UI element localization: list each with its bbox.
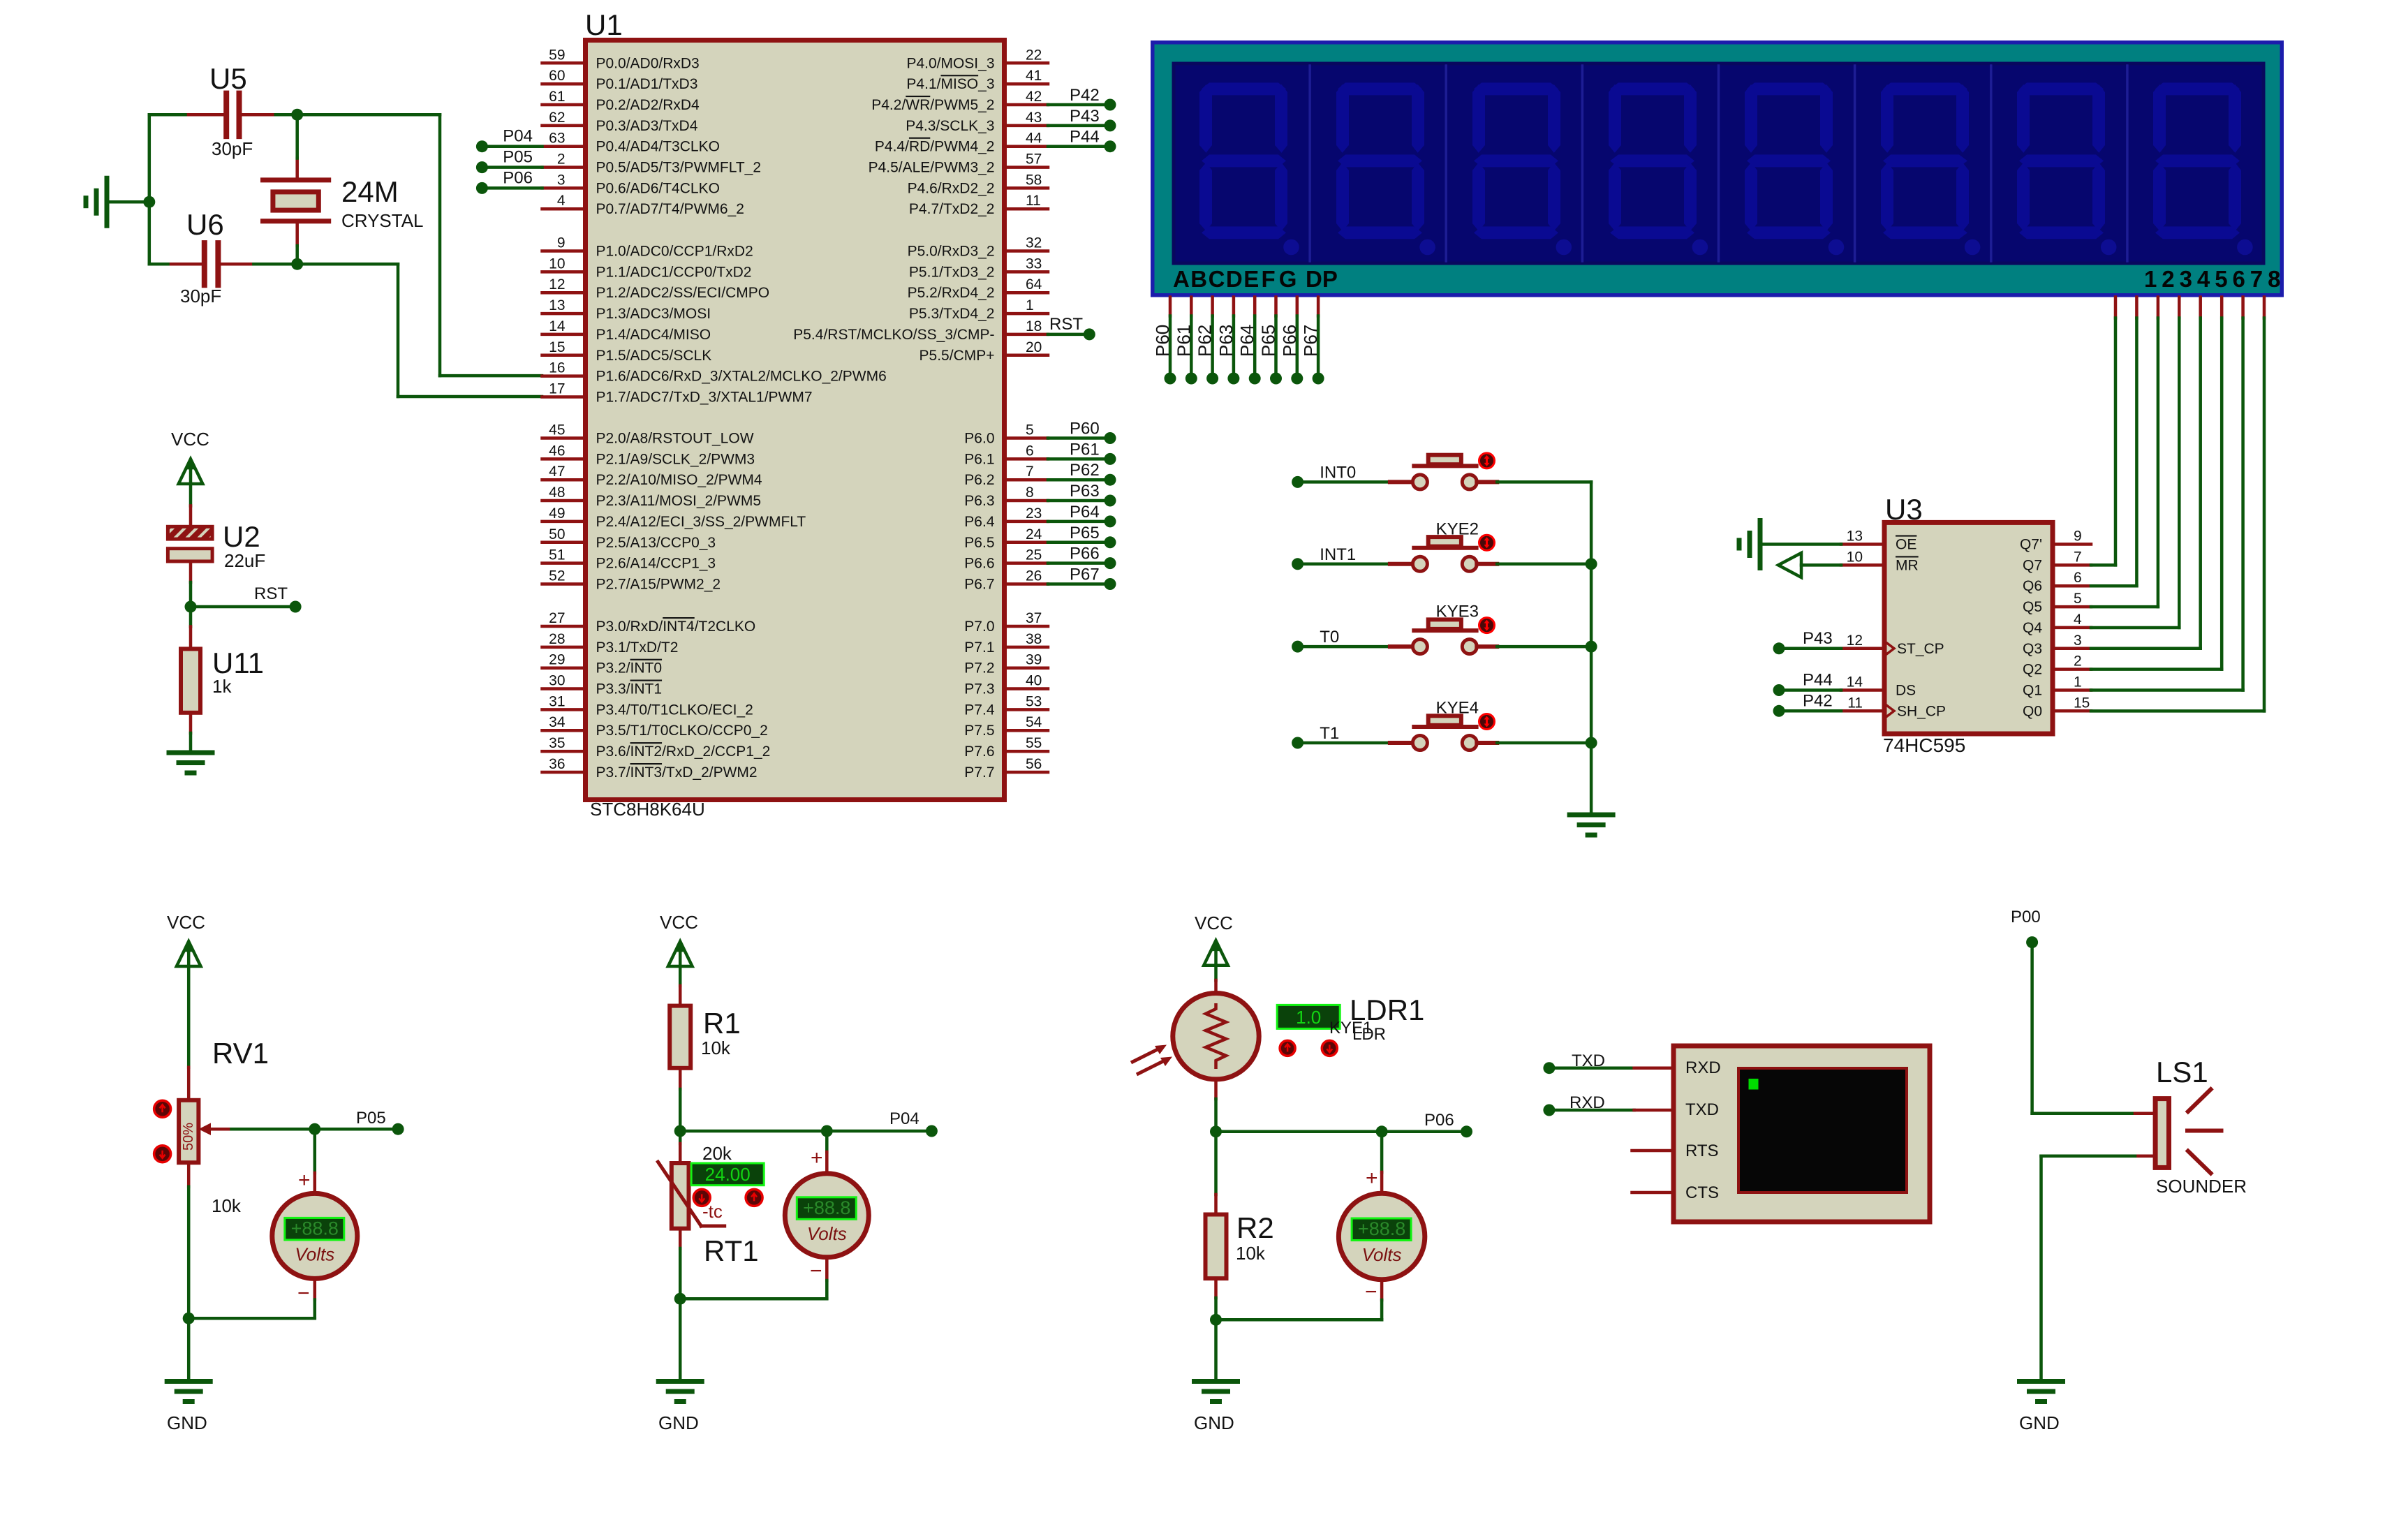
- terminal T0: [1292, 628, 1339, 653]
- svg-text:INT0: INT0: [1320, 463, 1356, 482]
- svg-text:R2: R2: [1236, 1211, 1274, 1244]
- svg-text:42: 42: [1026, 89, 1042, 105]
- svg-text:C: C: [1209, 266, 1225, 292]
- value display 24.00 (RT1): [691, 1163, 764, 1185]
- U1 left pin group P1 (pins 9,10,12,13,14,15,16,17): [542, 235, 887, 406]
- svg-text:P0.5/AD5/T3/PWMFLT_2: P0.5/AD5/T3/PWMFLT_2: [596, 160, 762, 176]
- LDR LDR1: [1131, 994, 1424, 1079]
- wire U3 Q3 to display vertical: [2091, 647, 2201, 651]
- terminal P00: [2011, 908, 2041, 948]
- display digit cell 8 (ghost 8 and decimal point): [2127, 66, 2253, 261]
- svg-text:P67: P67: [1300, 325, 1321, 357]
- svg-text:56: 56: [1026, 756, 1042, 772]
- svg-text:MR: MR: [1896, 557, 1919, 573]
- svg-text:46: 46: [549, 443, 565, 459]
- svg-text:8: 8: [2268, 266, 2280, 292]
- display digit cell 6 (ghost 8 and decimal point): [1855, 66, 1981, 261]
- svg-text:24M: 24M: [341, 175, 399, 208]
- svg-text:−: −: [1365, 1280, 1377, 1303]
- svg-text:P3.4/T0/T1CLKO/ECI_2: P3.4/T0/T1CLKO/ECI_2: [596, 702, 753, 718]
- U3 left pins (13 OE, 10 MR, 12 ST_CP, 14 DS, 11 SH_CP): [1841, 529, 1946, 720]
- svg-text:P7.0: P7.0: [964, 619, 994, 635]
- svg-text:57: 57: [1026, 152, 1042, 168]
- svg-text:SH_CP: SH_CP: [1897, 703, 1946, 719]
- svg-text:GND: GND: [658, 1412, 699, 1433]
- U1 right pin group P4 (pins 22,41,42,43,44,57,58,11): [869, 47, 1048, 217]
- svg-text:14: 14: [1847, 674, 1863, 690]
- wire P42 to U3: [1785, 709, 1841, 713]
- svg-text:6: 6: [2074, 570, 2082, 586]
- U1 right pin group P6 (pins 5,6,7,8,23,24,25,26): [964, 422, 1048, 593]
- svg-text:P4.7/TxD2_2: P4.7/TxD2_2: [909, 201, 995, 217]
- wire P64 from U1: [1048, 520, 1110, 524]
- push button KYE3 (T0): [1303, 603, 1591, 654]
- svg-text:P4.1/MISO_3: P4.1/MISO_3: [906, 76, 994, 92]
- svg-text:59: 59: [549, 47, 565, 63]
- terminal P06 (LDR): [1424, 1111, 1472, 1137]
- node ground junction: [143, 196, 155, 208]
- terminal P62 (display): [1195, 325, 1219, 385]
- svg-text:Q6: Q6: [2023, 578, 2042, 594]
- svg-text:Q7: Q7: [2023, 557, 2042, 573]
- svg-text:1: 1: [2144, 266, 2157, 292]
- U1 right pin group P5 (pins 32,33,64,1,18,20): [793, 235, 1048, 364]
- svg-text:5: 5: [2215, 266, 2227, 292]
- svg-text:18: 18: [1026, 318, 1042, 334]
- wire P43 from U1: [1048, 124, 1110, 128]
- svg-text:28: 28: [549, 631, 565, 647]
- wire P44 to U3: [1785, 688, 1841, 692]
- terminal P64: [1070, 503, 1116, 528]
- label KYE1 (overlapping): [1329, 1019, 1372, 1037]
- wire R1 to P04 node: [679, 1089, 682, 1131]
- wire U3 Q0 to display vertical: [2091, 709, 2264, 713]
- terminal P42 (U3): [1773, 691, 1833, 717]
- svg-text:P6.3: P6.3: [964, 493, 994, 509]
- wire ground to node: [107, 200, 149, 204]
- wire P63 from U1: [1048, 499, 1110, 503]
- svg-text:53: 53: [1026, 693, 1042, 709]
- svg-text:27: 27: [549, 610, 565, 626]
- svg-text:Q2: Q2: [2023, 662, 2042, 678]
- svg-text:43: 43: [1026, 110, 1042, 126]
- wire P61 from U1: [1048, 457, 1110, 461]
- terminal P04 (R1/RT1): [889, 1109, 938, 1137]
- svg-text:50%: 50%: [181, 1123, 196, 1151]
- svg-text:RT1: RT1: [704, 1234, 759, 1267]
- svg-text:1: 1: [1026, 297, 1034, 313]
- wire display digit pin 3 to U3 Q5: [2157, 297, 2160, 607]
- ground (U3 OE): [1739, 521, 1760, 568]
- svg-text:39: 39: [1026, 652, 1042, 668]
- terminal P05: [476, 148, 533, 174]
- wire display digit pin 4 to U3 Q4: [2178, 297, 2181, 628]
- wire display digit pin 2 to U3 Q6: [2135, 297, 2139, 586]
- wire U3 Q5 to display vertical: [2091, 605, 2158, 609]
- svg-text:U1: U1: [585, 8, 623, 41]
- terminal P44 (U3): [1773, 671, 1833, 697]
- svg-text:KYE3: KYE3: [1436, 603, 1479, 621]
- svg-text:VCC: VCC: [1195, 913, 1233, 933]
- svg-text:P0.4/AD4/T3CLKO: P0.4/AD4/T3CLKO: [596, 139, 720, 155]
- svg-text:P4.4/RD/PWM4_2: P4.4/RD/PWM4_2: [875, 139, 995, 155]
- wire P06 row: [1216, 1130, 1467, 1134]
- svg-text:7: 7: [1026, 464, 1034, 480]
- power VCC terminal (reset circuit): [171, 429, 209, 506]
- wire voltmeter + (RT1): [825, 1131, 829, 1174]
- ground GND (RV1): [167, 1382, 210, 1434]
- svg-text:P5.1/TxD3_2: P5.1/TxD3_2: [909, 264, 995, 280]
- node bottom rail junction (RT1): [674, 1293, 686, 1305]
- svg-text:3: 3: [2074, 633, 2082, 649]
- display segment pin 2 wire to terminal P61: [1190, 297, 1193, 373]
- svg-text:8: 8: [1026, 485, 1034, 501]
- svg-text:P6.4: P6.4: [964, 514, 995, 530]
- svg-text:P65: P65: [1070, 524, 1100, 542]
- wire P62 from U1: [1048, 478, 1110, 482]
- svg-text:P0.7/AD7/T4/PWM6_2: P0.7/AD7/T4/PWM6_2: [596, 201, 744, 217]
- node button bus junction: [1586, 558, 1597, 570]
- node button bus junction: [1586, 737, 1597, 749]
- U1 left pin group P0 (pins 59,60,61,62,63,2,3,4): [542, 47, 762, 217]
- svg-text:R1: R1: [703, 1007, 741, 1040]
- power VCC terminal (LDR): [1195, 913, 1233, 966]
- resistor R1 10k: [670, 986, 741, 1089]
- svg-text:RXD: RXD: [1685, 1058, 1721, 1077]
- svg-text:P5.2/RxD4_2: P5.2/RxD4_2: [908, 285, 995, 301]
- display segment pin 3 wire to terminal P62: [1211, 297, 1214, 373]
- terminal TXD: [1543, 1051, 1605, 1074]
- svg-text:P60: P60: [1070, 420, 1100, 438]
- voltmeter (RT1): [785, 1146, 869, 1283]
- wire P42 from U1: [1048, 103, 1110, 107]
- ground (reset circuit): [169, 753, 212, 773]
- adjust buttons (LDR1): [1280, 1040, 1337, 1056]
- svg-text:32: 32: [1026, 235, 1042, 251]
- svg-text:P63: P63: [1216, 325, 1236, 357]
- node voltmeter + junction (RT1): [821, 1125, 833, 1137]
- terminal P63 (display): [1216, 325, 1240, 385]
- svg-text:9: 9: [557, 235, 566, 251]
- ground GND (LDR): [1194, 1382, 1238, 1434]
- svg-text:7: 7: [2250, 266, 2263, 292]
- svg-text:P6.6: P6.6: [964, 556, 994, 572]
- wire voltmeter - to bottom rail: [189, 1278, 315, 1318]
- display segment pin 6 wire to terminal P65: [1274, 297, 1278, 373]
- svg-text:GND: GND: [2019, 1412, 2060, 1433]
- terminal RST: [254, 584, 302, 613]
- value display 1.0 (LDR1): [1277, 1005, 1340, 1028]
- wire junction to voltmeter +: [313, 1129, 317, 1193]
- svg-text:DP: DP: [1306, 266, 1338, 292]
- svg-text:LS1: LS1: [2156, 1056, 2208, 1088]
- display segment pin 7 wire to terminal P66: [1296, 297, 1299, 373]
- svg-text:11: 11: [1847, 695, 1863, 711]
- svg-text:D: D: [1226, 266, 1243, 292]
- svg-text:−: −: [810, 1260, 822, 1283]
- svg-text:P66: P66: [1279, 325, 1300, 357]
- wire U3 Q7 to display vertical: [2091, 563, 2115, 567]
- svg-text:ST_CP: ST_CP: [1897, 641, 1944, 657]
- svg-text:2: 2: [557, 152, 566, 168]
- display segment pin 4 wire to terminal P63: [1232, 297, 1236, 373]
- svg-text:10k: 10k: [1236, 1243, 1266, 1264]
- terminal P60 (display): [1152, 325, 1176, 385]
- svg-text:+: +: [811, 1146, 823, 1169]
- svg-text:P61: P61: [1070, 440, 1100, 459]
- svg-text:P06: P06: [1424, 1111, 1454, 1130]
- wire bottom to ground (RT1): [679, 1299, 682, 1381]
- svg-text:6: 6: [1026, 443, 1034, 459]
- svg-text:47: 47: [549, 464, 565, 480]
- svg-text:VCC: VCC: [167, 912, 205, 933]
- svg-text:U5: U5: [209, 62, 247, 95]
- svg-text:P42: P42: [1070, 86, 1100, 105]
- svg-text:P2.2/A10/MISO_2/PWM4: P2.2/A10/MISO_2/PWM4: [596, 472, 762, 488]
- ground GND (RT1): [658, 1382, 702, 1434]
- svg-text:Volts: Volts: [1362, 1244, 1402, 1265]
- svg-text:P2.4/A12/ECI_3/SS_2/PWMFLT: P2.4/A12/ECI_3/SS_2/PWMFLT: [596, 514, 806, 530]
- svg-text:61: 61: [549, 89, 565, 105]
- node crystal top: [291, 109, 303, 121]
- svg-text:P2.5/A13/CCP0_3: P2.5/A13/CCP0_3: [596, 535, 716, 551]
- capacitor U5 30pF: [209, 62, 253, 159]
- wire button common bus: [1590, 482, 1593, 815]
- svg-text:P6.5: P6.5: [964, 535, 994, 551]
- svg-text:P62: P62: [1195, 325, 1216, 357]
- wire display digit pin 5 to U3 Q3: [2199, 297, 2202, 649]
- svg-text:30pF: 30pF: [180, 286, 221, 306]
- svg-text:P4.6/RxD2_2: P4.6/RxD2_2: [908, 180, 995, 196]
- U3 right pins (9 Q7', 7 Q7, 6 Q6, 5 Q5, 4 Q4, 3 Q3, 2 Q2, 1 Q1, 15 Q0): [2020, 529, 2091, 720]
- svg-text:1: 1: [2074, 674, 2082, 690]
- display digit cell 2 (ghost 8 and decimal point): [1310, 66, 1435, 261]
- terminal RTS stub: [1632, 1149, 1674, 1153]
- terminal T1: [1292, 724, 1339, 749]
- terminal P67: [1070, 566, 1116, 591]
- display digit cell 1 (ghost 8 and decimal point): [1199, 82, 1299, 255]
- svg-text:P05: P05: [503, 148, 533, 167]
- svg-text:P7.5: P7.5: [964, 723, 994, 739]
- wire U11 to ground: [189, 733, 193, 753]
- svg-text:60: 60: [549, 68, 565, 84]
- svg-text:KYE4: KYE4: [1436, 699, 1479, 718]
- svg-text:63: 63: [549, 131, 565, 147]
- svg-text:P3.1/TxD/T2: P3.1/TxD/T2: [596, 640, 679, 656]
- svg-text:T0: T0: [1320, 628, 1339, 647]
- svg-text:OE: OE: [1896, 537, 1916, 553]
- node button bus junction: [1586, 641, 1597, 653]
- svg-text:P7.2: P7.2: [964, 660, 994, 677]
- display segment pin 8 wire to terminal P67: [1317, 297, 1320, 373]
- svg-text:+: +: [1366, 1167, 1378, 1190]
- svg-text:49: 49: [549, 505, 565, 522]
- svg-text:64: 64: [1026, 276, 1042, 293]
- svg-text:2: 2: [2074, 653, 2082, 670]
- svg-text:1.0: 1.0: [1296, 1007, 1321, 1028]
- svg-text:17: 17: [549, 381, 565, 397]
- wire XTAL1 net to U1 pin17: [297, 264, 542, 397]
- terminal P43 (U3): [1773, 629, 1833, 655]
- svg-text:P43: P43: [1803, 629, 1833, 648]
- svg-text:12: 12: [549, 276, 565, 293]
- svg-text:P2.7/A15/PWM2_2: P2.7/A15/PWM2_2: [596, 577, 721, 593]
- svg-text:P1.4/ADC4/MISO: P1.4/ADC4/MISO: [596, 327, 711, 343]
- svg-text:U3: U3: [1885, 493, 1923, 526]
- svg-text:30: 30: [549, 673, 565, 689]
- display digit cell 4 (ghost 8 and decimal point): [1582, 66, 1708, 261]
- svg-text:4: 4: [2074, 612, 2082, 628]
- node crystal bottom: [291, 258, 303, 270]
- IC U3 74HC595 body: [1883, 493, 2053, 756]
- svg-text:31: 31: [549, 693, 565, 709]
- voltmeter (RV1): [272, 1169, 357, 1305]
- svg-text:GND: GND: [167, 1412, 207, 1433]
- svg-text:10: 10: [549, 256, 565, 272]
- svg-text:24.00: 24.00: [705, 1164, 751, 1185]
- wire RV1 bottom to ground: [187, 1187, 191, 1382]
- U1 left pin group P3 (pins 27,28,29,30,31,34,35,36): [542, 610, 771, 781]
- svg-text:B: B: [1190, 266, 1207, 292]
- node RT1 top junction: [674, 1125, 686, 1137]
- adjust buttons (RT1): [693, 1189, 762, 1206]
- svg-text:30pF: 30pF: [212, 138, 253, 159]
- svg-text:DS: DS: [1896, 683, 1916, 699]
- wire sounder to ground: [2041, 1156, 2156, 1382]
- terminal P60: [1070, 420, 1116, 445]
- svg-text:P6.2: P6.2: [964, 472, 994, 488]
- svg-text:4: 4: [2197, 266, 2210, 292]
- thermistor RT1 (NTC): [658, 1131, 758, 1267]
- wire U3 Q1 to display vertical: [2091, 688, 2243, 692]
- svg-text:P0.1/AD1/TxD3: P0.1/AD1/TxD3: [596, 76, 698, 92]
- ground (buttons): [1569, 815, 1613, 835]
- svg-text:P5.3/TxD4_2: P5.3/TxD4_2: [909, 306, 995, 322]
- terminal P61: [1070, 440, 1116, 465]
- display segment pin 1 wire to terminal P60: [1169, 297, 1172, 373]
- svg-text:74HC595: 74HC595: [1883, 734, 1965, 756]
- svg-text:P67: P67: [1070, 566, 1100, 584]
- svg-text:33: 33: [1026, 256, 1042, 272]
- svg-text:VCC: VCC: [660, 912, 698, 933]
- svg-text:4: 4: [557, 193, 566, 209]
- terminal RXD: [1543, 1093, 1604, 1116]
- svg-text:52: 52: [549, 568, 565, 584]
- svg-text:KYE2: KYE2: [1436, 519, 1479, 538]
- svg-text:P1.3/ADC3/MOSI: P1.3/ADC3/MOSI: [596, 306, 711, 322]
- terminal P66 (display): [1279, 325, 1303, 385]
- svg-text:STC8H8K64U: STC8H8K64U: [590, 799, 705, 820]
- capacitor U2 22uF (electrolytic): [168, 506, 265, 583]
- push button KYE1 (INT0): [1303, 453, 1591, 489]
- node R2 top junction: [1210, 1125, 1222, 1137]
- svg-text:37: 37: [1026, 610, 1042, 626]
- node RST junction: [185, 601, 197, 613]
- svg-text:7: 7: [2074, 549, 2082, 565]
- svg-text:5: 5: [2074, 591, 2082, 607]
- svg-text:+88.8: +88.8: [1358, 1218, 1405, 1239]
- svg-text:P1.1/ADC1/CCP0/TxD2: P1.1/ADC1/CCP0/TxD2: [596, 264, 752, 280]
- wire crystal bottom vertical: [295, 246, 299, 264]
- terminal P66: [1070, 545, 1116, 570]
- svg-text:9: 9: [2074, 529, 2082, 545]
- ground (crystal circuit): [86, 178, 107, 226]
- svg-text:Volts: Volts: [807, 1223, 847, 1244]
- svg-text:U6: U6: [186, 208, 224, 241]
- svg-text:P6.1: P6.1: [964, 451, 994, 467]
- node voltmeter + junction (LDR): [1376, 1125, 1388, 1137]
- wire XTAL2 net to U1 pin16: [297, 115, 542, 376]
- svg-text:54: 54: [1026, 714, 1042, 730]
- terminal P05 (RV1): [356, 1109, 404, 1135]
- svg-text:Volts: Volts: [295, 1243, 334, 1264]
- svg-text:35: 35: [549, 735, 565, 751]
- svg-text:12: 12: [1847, 633, 1863, 649]
- wire VCC to LDR: [1214, 966, 1218, 994]
- terminal RST (U1): [1049, 315, 1095, 341]
- svg-text:Q7': Q7': [2020, 537, 2042, 553]
- wire bottom to ground (LDR): [1214, 1298, 1218, 1382]
- svg-text:−: −: [297, 1282, 310, 1305]
- svg-text:P7.1: P7.1: [964, 640, 994, 656]
- IC U1 STC8H8K64U body: [585, 8, 1005, 820]
- svg-text:38: 38: [1026, 631, 1042, 647]
- svg-text:P44: P44: [1070, 128, 1100, 147]
- svg-text:10: 10: [1847, 549, 1863, 565]
- svg-text:P0.0/AD0/RxD3: P0.0/AD0/RxD3: [596, 55, 700, 71]
- wire P05 to U1: [482, 165, 542, 169]
- terminal P04: [476, 127, 533, 153]
- node bottom rail junction (RV1): [183, 1313, 195, 1324]
- display segment labels ABCDEFG DP: [1173, 266, 1338, 292]
- svg-text:P2.0/A8/RSTOUT_LOW: P2.0/A8/RSTOUT_LOW: [596, 431, 754, 447]
- wire RT1 to bottom rail (RT1): [679, 1248, 682, 1299]
- svg-text:Q1: Q1: [2023, 683, 2042, 699]
- svg-text:P2.6/A14/CCP1_3: P2.6/A14/CCP1_3: [596, 556, 716, 572]
- terminal P42: [1070, 86, 1116, 111]
- svg-text:Q5: Q5: [2023, 599, 2042, 615]
- wire ground to U3 OE: [1760, 542, 1841, 546]
- svg-text:P05: P05: [356, 1109, 386, 1128]
- wire P65 from U1: [1048, 541, 1110, 545]
- terminal P65 (display): [1258, 325, 1283, 385]
- svg-text:P66: P66: [1070, 545, 1100, 563]
- display segment pin 5 wire to terminal P64: [1253, 297, 1257, 373]
- svg-text:P6.7: P6.7: [964, 577, 994, 593]
- wire crystal top vertical: [295, 115, 299, 158]
- svg-text:10k: 10k: [701, 1037, 731, 1058]
- svg-text:P4.5/ALE/PWM3_2: P4.5/ALE/PWM3_2: [869, 160, 995, 176]
- wire P04 to U1: [482, 145, 542, 148]
- svg-text:14: 14: [549, 318, 566, 334]
- sounder LS1: [2155, 1056, 2247, 1197]
- svg-text:50: 50: [549, 526, 565, 542]
- terminal P65: [1070, 524, 1116, 549]
- svg-text:P0.2/AD2/RxD4: P0.2/AD2/RxD4: [596, 97, 700, 113]
- svg-text:P4.2/WR/PWM5_2: P4.2/WR/PWM5_2: [871, 97, 994, 113]
- svg-text:55: 55: [1026, 735, 1042, 751]
- svg-text:P5.0/RxD3_2: P5.0/RxD3_2: [908, 244, 995, 260]
- svg-text:20k: 20k: [702, 1143, 732, 1164]
- power terminal arrow to U3 MR: [1778, 553, 1841, 577]
- svg-text:P0.3/AD3/TxD4: P0.3/AD3/TxD4: [596, 118, 698, 134]
- svg-text:P60: P60: [1152, 325, 1173, 357]
- svg-text:P1.6/ADC6/RxD_3/XTAL2/MCLKO_2/: P1.6/ADC6/RxD_3/XTAL2/MCLKO_2/PWM6: [596, 369, 887, 385]
- svg-text:P3.5/T1/T0CLKO/CCP0_2: P3.5/T1/T0CLKO/CCP0_2: [596, 723, 768, 739]
- svg-text:P1.5/ADC5/SCLK: P1.5/ADC5/SCLK: [596, 348, 712, 364]
- wire P06 to U1: [482, 186, 542, 190]
- svg-text:15: 15: [549, 339, 565, 355]
